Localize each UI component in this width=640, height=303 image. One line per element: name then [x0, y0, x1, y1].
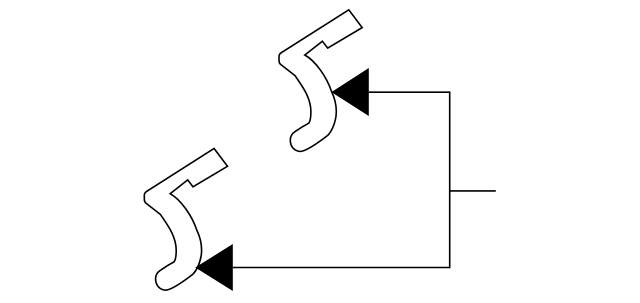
- wire bottom horizontal: [233, 267, 451, 269]
- wire top horizontal: [369, 91, 450, 93]
- symbol X2 (bottom squiggle): [144, 149, 227, 291]
- wire output stub: [450, 190, 496, 192]
- symbol X1 (top squiggle): [279, 10, 362, 152]
- arrowhead A2 (bottom input triangle): [195, 244, 233, 291]
- arrowhead A1 (top input triangle): [331, 68, 368, 116]
- wire right vertical: [449, 91, 451, 268]
